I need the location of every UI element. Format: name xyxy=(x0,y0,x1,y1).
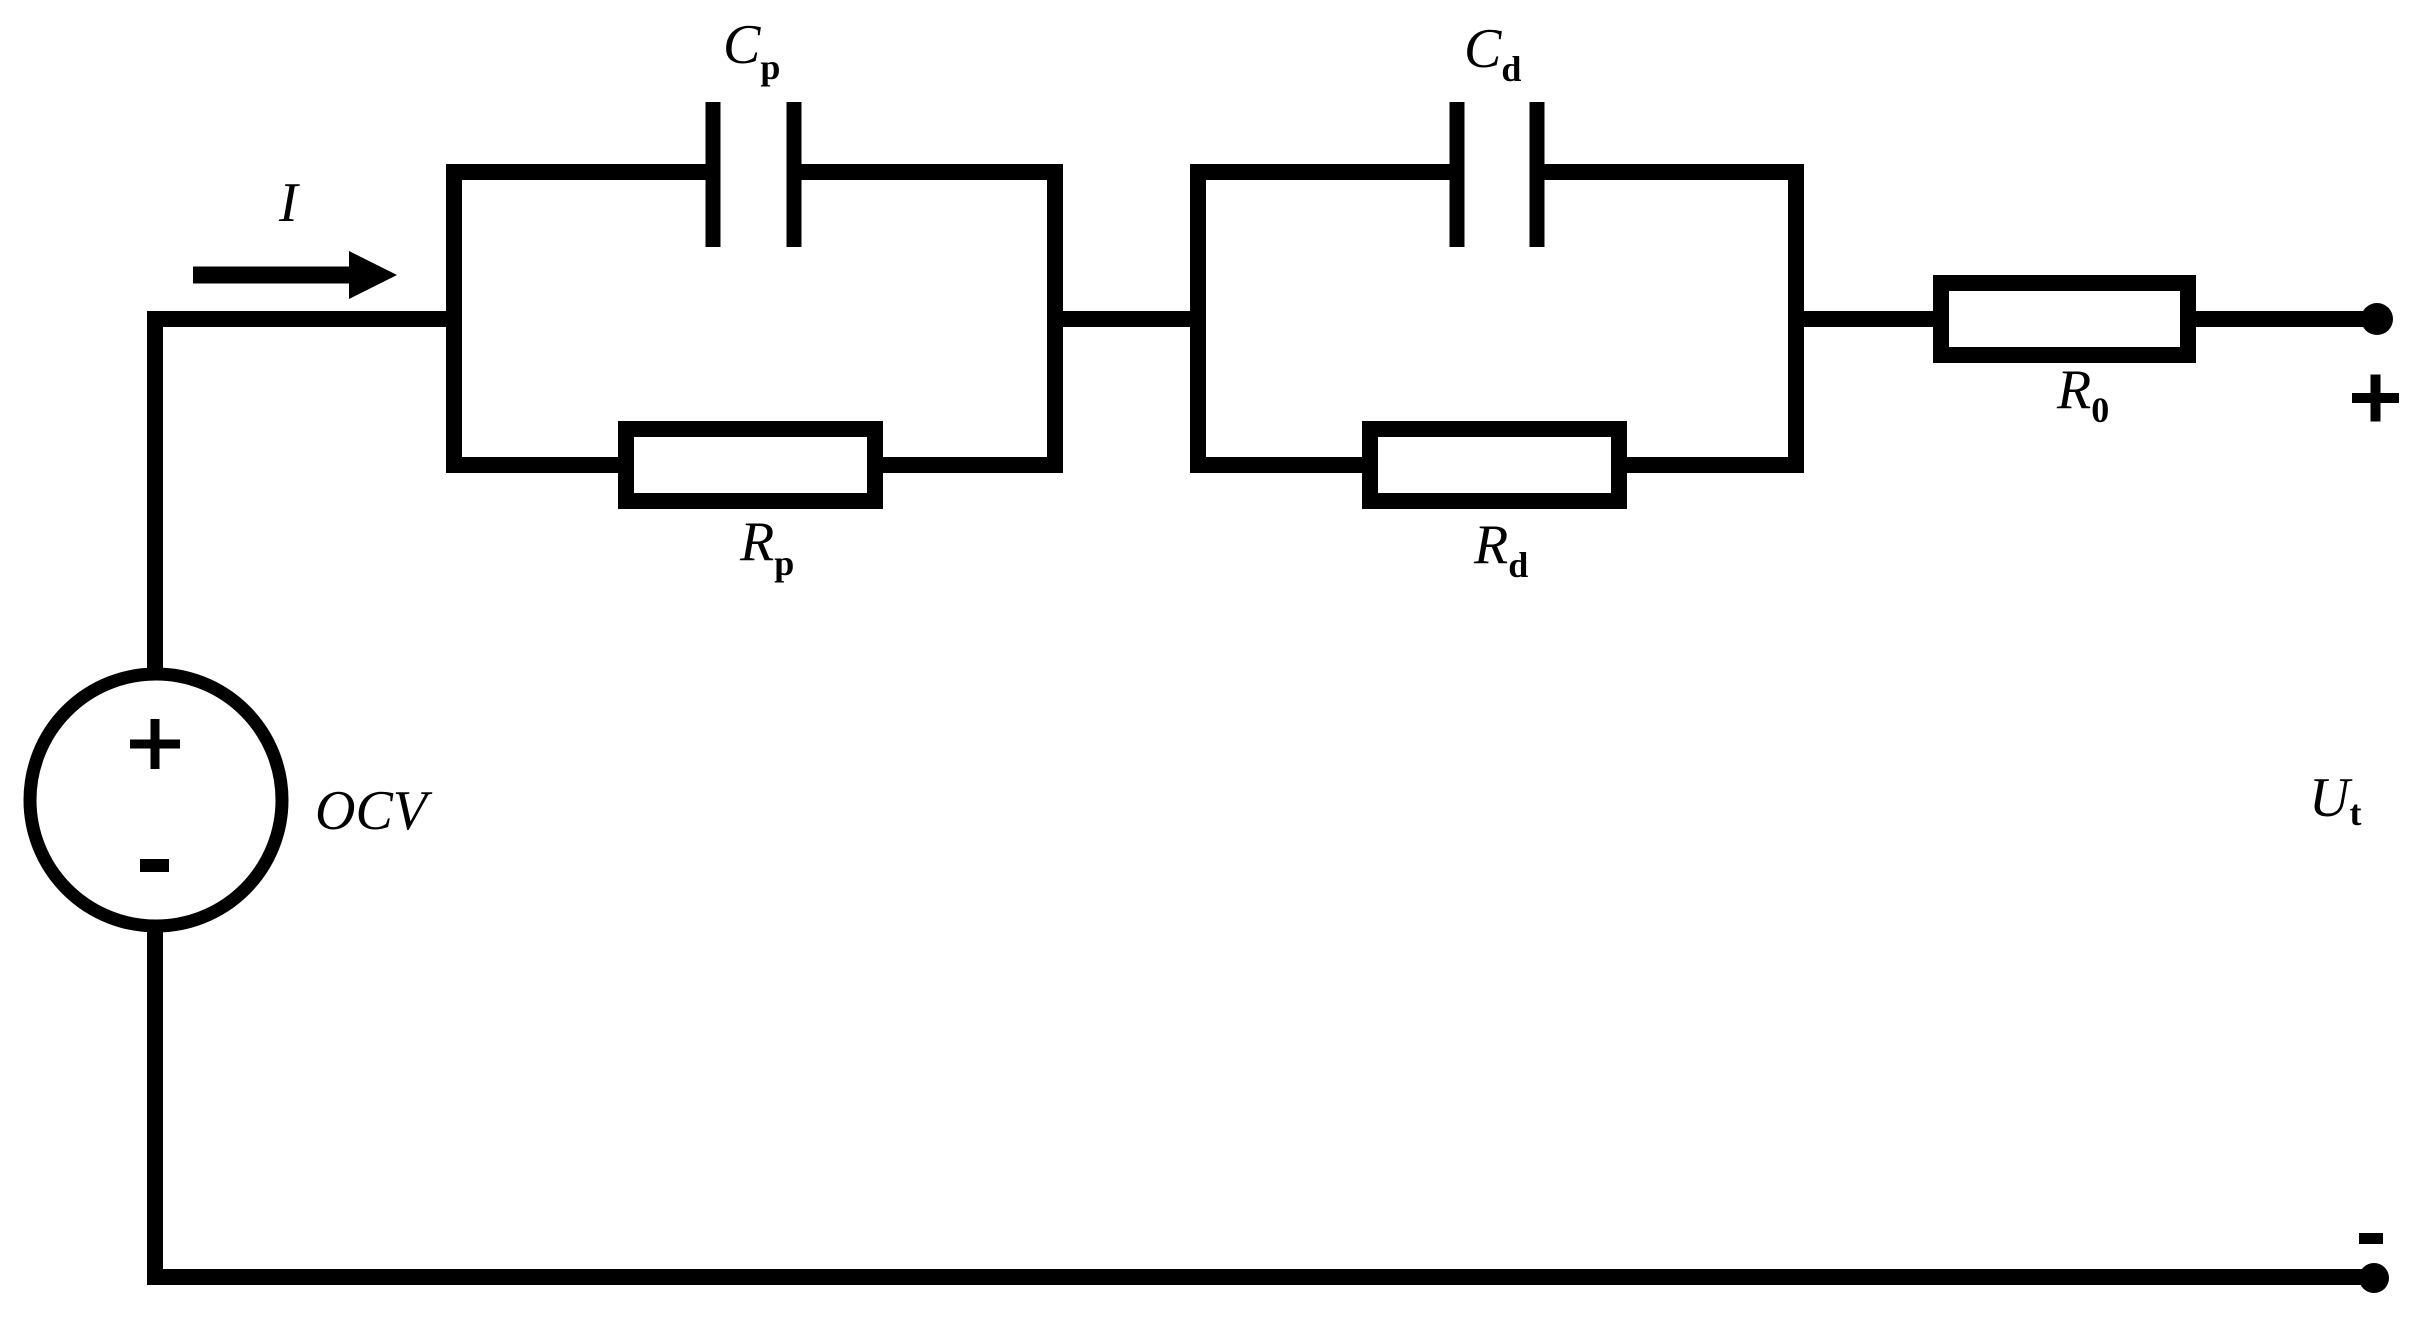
wire: OCV positive terminal up and right to node A xyxy=(155,319,454,675)
wire: RC block 2 frame right half xyxy=(1537,172,1796,465)
wire: R0 to positive output terminal xyxy=(2188,311,2374,327)
current arrow I xyxy=(193,251,397,299)
label + (output polarity) xyxy=(2352,375,2399,422)
wire: RC block 1 frame right half xyxy=(794,172,1055,465)
svg-text:OCV: OCV xyxy=(315,780,433,842)
wire: RC block 1 frame left half xyxy=(454,172,713,465)
wire: OCV negative terminal down and right to negative output terminal xyxy=(155,925,2374,1277)
label - (output polarity) xyxy=(2359,1233,2383,1244)
svg-text:I: I xyxy=(278,172,300,234)
resistor R0 xyxy=(1941,283,2188,355)
node: negative output terminal xyxy=(2359,1263,2389,1293)
wire: RC block 2 frame left half xyxy=(1198,172,1457,465)
voltage source OCV xyxy=(30,674,282,926)
wire: node B between RC blocks xyxy=(1055,311,1198,327)
resistor Rd xyxy=(1370,429,1619,501)
capacitor Cd xyxy=(1457,102,1537,247)
wire: RC block 2 to resistor R0 xyxy=(1796,311,1941,327)
resistor Rp xyxy=(626,429,875,501)
node: positive output terminal xyxy=(2361,303,2393,335)
capacitor Cp xyxy=(713,102,794,247)
